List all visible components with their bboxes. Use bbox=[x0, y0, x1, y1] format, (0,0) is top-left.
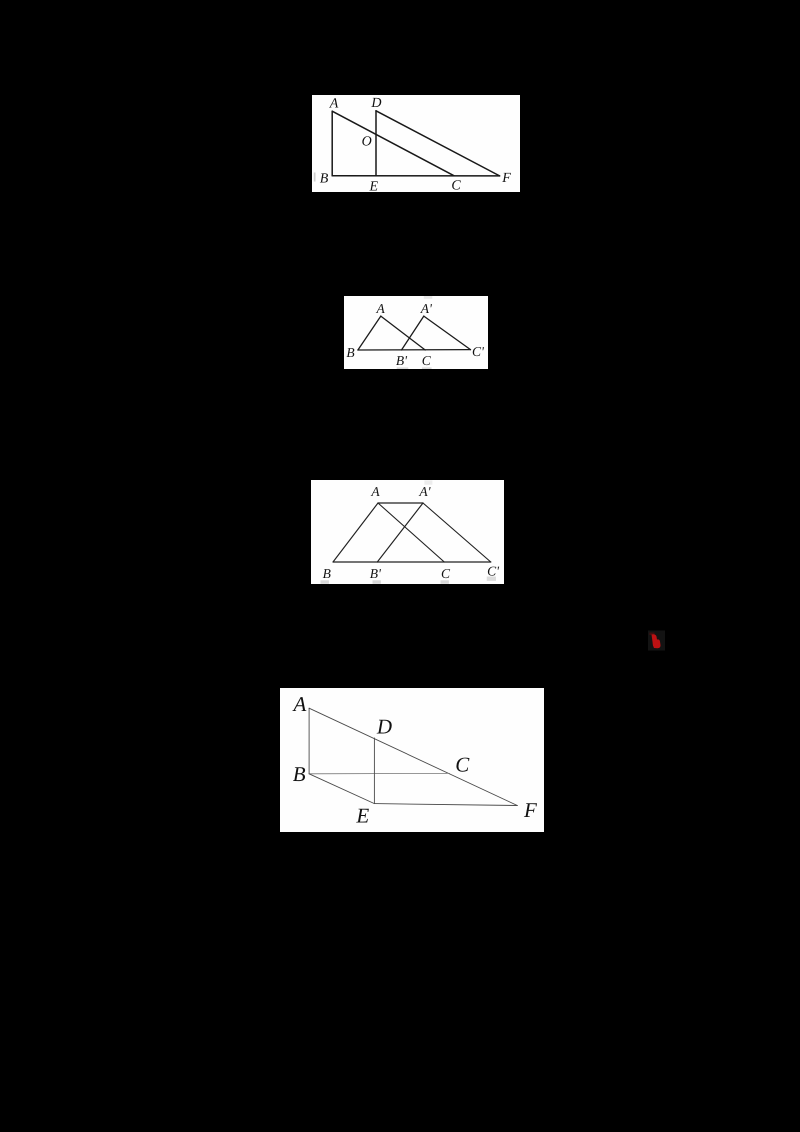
svg-text:A: A bbox=[328, 97, 338, 112]
svg-text:E: E bbox=[355, 804, 369, 828]
svg-text:F: F bbox=[523, 798, 537, 822]
svg-text:B': B' bbox=[395, 353, 407, 368]
svg-text:C': C' bbox=[472, 344, 485, 359]
svg-text:A: A bbox=[375, 301, 385, 316]
svg-text:B: B bbox=[322, 566, 330, 581]
svg-text:C: C bbox=[440, 566, 450, 581]
svg-text:D: D bbox=[370, 96, 381, 111]
svg-text:B: B bbox=[293, 762, 306, 786]
svg-text:A': A' bbox=[419, 301, 432, 316]
svg-text:F: F bbox=[501, 171, 511, 186]
svg-text:O: O bbox=[361, 135, 371, 150]
svg-text:B: B bbox=[346, 345, 354, 360]
svg-text:B': B' bbox=[369, 566, 381, 581]
svg-text:C: C bbox=[455, 752, 470, 776]
svg-text:A': A' bbox=[418, 484, 431, 499]
svg-text:C: C bbox=[451, 179, 461, 192]
svg-text:A: A bbox=[370, 484, 380, 499]
svg-text:C': C' bbox=[487, 563, 500, 578]
svg-text:C: C bbox=[421, 353, 431, 368]
svg-text:A: A bbox=[291, 692, 306, 716]
svg-text:D: D bbox=[376, 714, 392, 738]
svg-text:B: B bbox=[319, 172, 328, 187]
svg-text:E: E bbox=[368, 180, 378, 192]
